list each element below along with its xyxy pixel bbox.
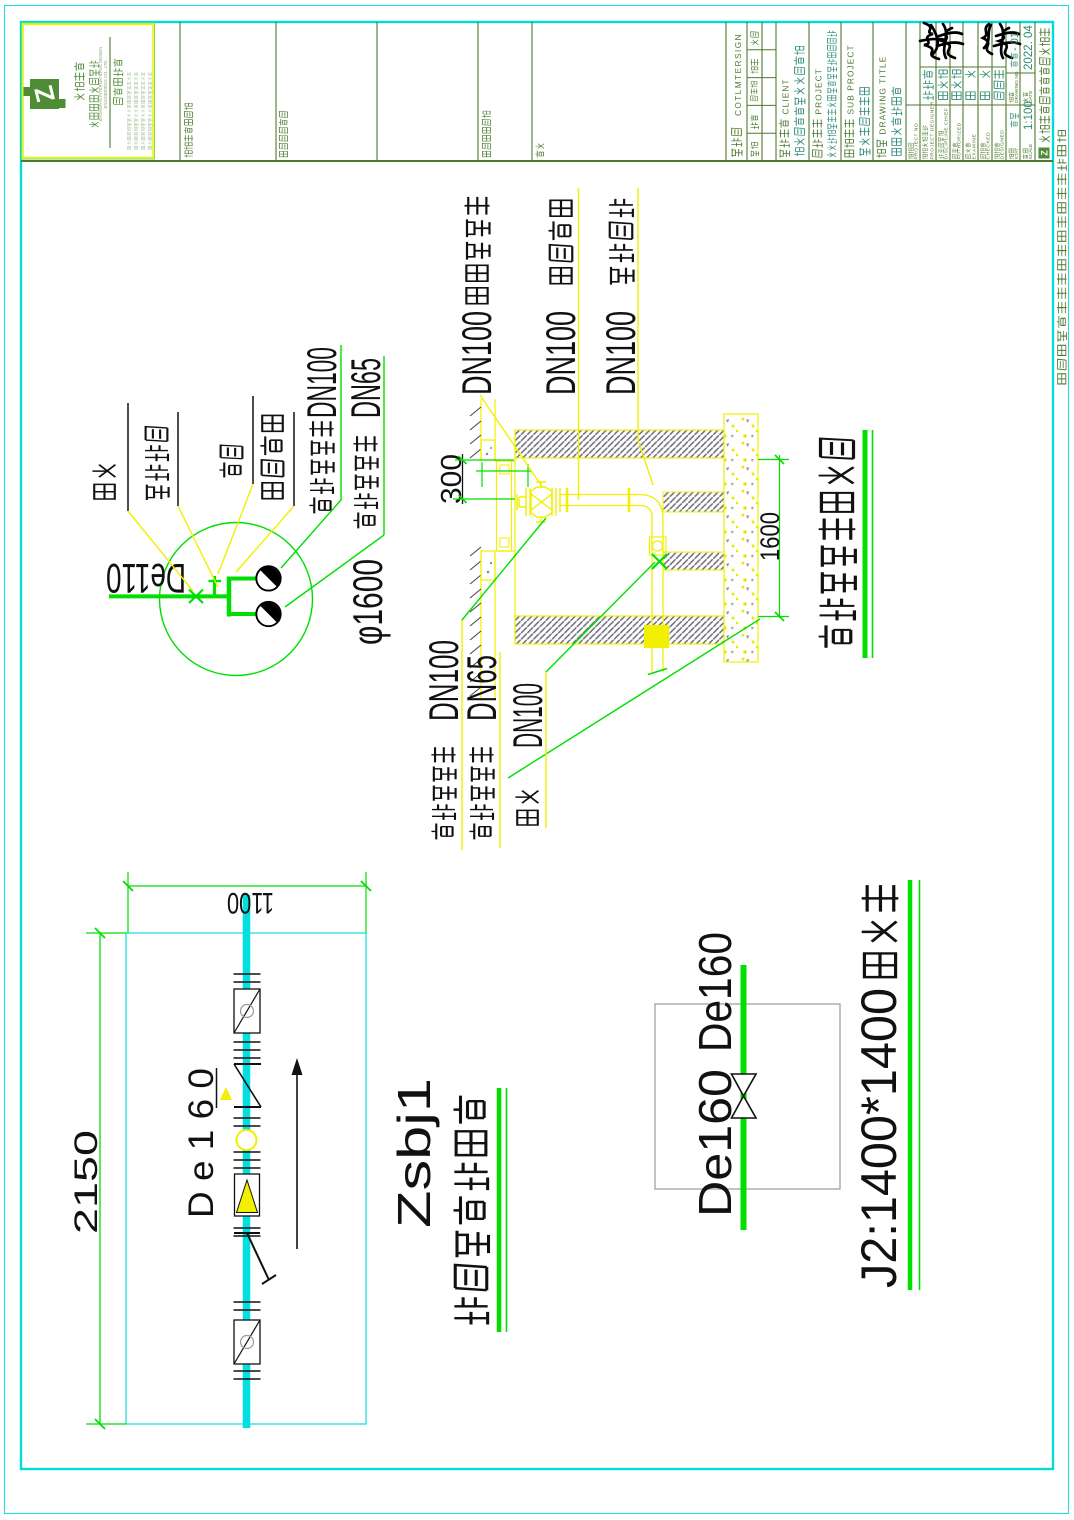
label DN100地下消火栓 + leader — [453, 197, 543, 488]
pit right wall — [515, 430, 724, 458]
svg-text:DN100: DN100 — [537, 311, 584, 395]
countersign header — [731, 33, 743, 157]
note below frame — [1057, 131, 1067, 384]
pit floor slab — [724, 414, 758, 662]
svg-text:DRAWING NO.: DRAWING NO. — [1014, 70, 1020, 103]
svg-text:STAT: STAT — [1014, 148, 1020, 160]
hydrant outlet DN100 (plan) — [256, 566, 280, 590]
svg-text:2150: 2150 — [68, 1130, 104, 1234]
supply pipe DN100 — [560, 495, 669, 675]
valve well square — [655, 1004, 840, 1189]
strainer — [234, 1233, 276, 1284]
svg-text:2022. 04: 2022. 04 — [1023, 25, 1035, 70]
svg-text:DISCIPLINE CHIEF: DISCIPLINE CHIEF — [944, 108, 950, 160]
svg-text:De160: De160 — [689, 932, 741, 1052]
svg-text:DN100: DN100 — [453, 311, 500, 395]
pressure gauge circle — [237, 1130, 257, 1150]
flange joint circle — [650, 537, 667, 555]
label De160 (meter well) — [182, 1068, 232, 1218]
flange set B — [234, 1042, 261, 1058]
drawing title row — [876, 56, 901, 158]
underground hydrant DN100 — [517, 482, 560, 522]
label 水嘴 + leader — [218, 396, 253, 574]
check valve — [234, 1064, 261, 1107]
cell label 设计单位资质章 — [184, 103, 193, 157]
svg-text:PROJECT NO.: PROJECT NO. — [914, 121, 920, 160]
title J2:1400*1400阀门井 — [851, 880, 920, 1290]
svg-text:CLIENT: CLIENT — [781, 78, 791, 114]
pier under elbow — [663, 492, 724, 512]
cell label 附注 — [535, 144, 544, 158]
label 室外消火栓 DN100 + leader — [420, 518, 546, 850]
ground surface left — [470, 399, 495, 700]
wall top line — [514, 430, 516, 644]
svg-text:EXAMINE: EXAMINE — [972, 134, 978, 160]
svg-text:DN65: DN65 — [458, 655, 505, 721]
project row — [812, 31, 837, 157]
pit left wall — [515, 616, 724, 644]
flange set A — [234, 974, 261, 982]
tap stub (plan) — [209, 576, 222, 596]
gate valve X (plan) — [189, 590, 203, 604]
svg-text:COTLMTERSIGN: COTLMTERSIGN — [734, 33, 743, 116]
subproject row — [844, 44, 870, 157]
svg-text:SCALE: SCALE — [1028, 144, 1034, 160]
manhole neck + cover — [481, 440, 515, 580]
title 总水表井大样图 — [454, 1088, 507, 1332]
dimension 1100 — [123, 872, 371, 933]
svg-text:De160: De160 — [689, 1069, 741, 1217]
cell label 注册执业印章 — [279, 111, 288, 156]
label 钢制三通 + leader — [145, 412, 218, 587]
svg-text:AUTHORIZED: AUTHORIZED — [957, 122, 963, 159]
cell label 合作设计单位 — [482, 111, 491, 157]
svg-text:DN100: DN100 — [298, 347, 345, 418]
stat/scale rows — [1009, 25, 1035, 160]
label phi1600 — [344, 559, 391, 645]
label 室外消火栓DN100 + leader — [281, 345, 345, 568]
riser flanges — [567, 488, 629, 512]
dimension 1600 — [755, 455, 789, 621]
title block grid — [21, 22, 1053, 161]
gate valve bowtie — [732, 1074, 757, 1118]
label 闸阀 + leader — [92, 403, 193, 591]
label De160 right — [689, 932, 741, 1052]
dimension 300 — [436, 454, 532, 504]
label 闸阀DN100 + leader — [504, 562, 655, 828]
flange set F — [234, 1302, 261, 1310]
company logo box — [22, 23, 155, 159]
svg-text:ENGINEERING CO., LTD.: ENGINEERING CO., LTD. — [103, 59, 108, 108]
main pipe De160 (cyan) — [243, 895, 251, 1428]
pier under valve — [663, 552, 724, 570]
label 镀锌钢管 + leader — [236, 412, 294, 572]
signatures — [920, 23, 1020, 59]
steel tee (plan) — [227, 577, 257, 617]
svg-text:DATE: DATE — [1028, 91, 1034, 103]
label De110 — [106, 555, 186, 602]
water meter — [235, 1174, 260, 1216]
label Zsbj1 — [388, 1078, 440, 1228]
water meter well box — [126, 933, 366, 1424]
personnel rows — [908, 70, 1005, 160]
pipe De110 (plan) — [109, 594, 229, 598]
svg-text:1600: 1600 — [755, 512, 785, 561]
gate valve 1 (box) — [234, 989, 260, 1033]
label 室外消火栓DN65 + leader — [285, 356, 389, 607]
title 室外消火栓大样图 — [819, 430, 873, 658]
svg-text:DN65: DN65 — [342, 358, 389, 418]
gate valve 2 (box) — [234, 1320, 260, 1364]
label 室外消火栓 DN65 + leader — [458, 619, 760, 848]
svg-text:CHECKED: CHECKED — [986, 132, 992, 160]
svg-text:J2:1400*1400: J2:1400*1400 — [851, 988, 907, 1288]
label DN100 钢制弯头 + leader — [597, 188, 653, 485]
flange set E — [234, 1228, 261, 1236]
svg-text:SUB PROJECT: SUB PROJECT — [846, 44, 856, 114]
flange set D — [234, 1152, 261, 1168]
svg-text:1100: 1100 — [227, 886, 274, 919]
pipe De160 (green) — [741, 965, 747, 1230]
svg-text:DRAWING TITLE: DRAWING TITLE — [878, 56, 888, 135]
gate valve (section, green X) — [652, 554, 667, 569]
svg-text:Z: Z — [1040, 150, 1050, 156]
svg-text:DN100: DN100 — [504, 683, 551, 748]
svg-text:PROJECT: PROJECT — [814, 68, 824, 114]
flow arrow — [292, 1058, 303, 1249]
svg-text:1:100: 1:100 — [1023, 101, 1035, 130]
svg-text:φ1600: φ1600 — [344, 559, 391, 645]
svg-text:De110: De110 — [106, 555, 186, 602]
flange set C — [234, 1118, 261, 1126]
flange set G — [234, 1371, 261, 1379]
label DN100 镀锌钢管 + leader — [537, 188, 584, 500]
label De160 left — [689, 1069, 741, 1217]
svg-text:DN100: DN100 — [597, 311, 644, 395]
footer company name — [1039, 28, 1051, 158]
svg-text:- 01: - 01 — [1009, 32, 1021, 51]
svg-text:D e 1 6 0: D e 1 6 0 — [182, 1068, 221, 1218]
svg-text:Zsbj1: Zsbj1 — [388, 1078, 440, 1228]
dimension 2150 — [68, 928, 126, 1429]
svg-text:PROJECT DESIGNER: PROJECT DESIGNER — [930, 101, 936, 159]
well circle phi1600 — [160, 523, 313, 676]
hydrant outlet DN65 (plan) — [256, 602, 280, 626]
client row — [779, 46, 805, 157]
svg-text:DESIGNED: DESIGNED — [1000, 130, 1006, 160]
discipline cells — [750, 32, 758, 157]
